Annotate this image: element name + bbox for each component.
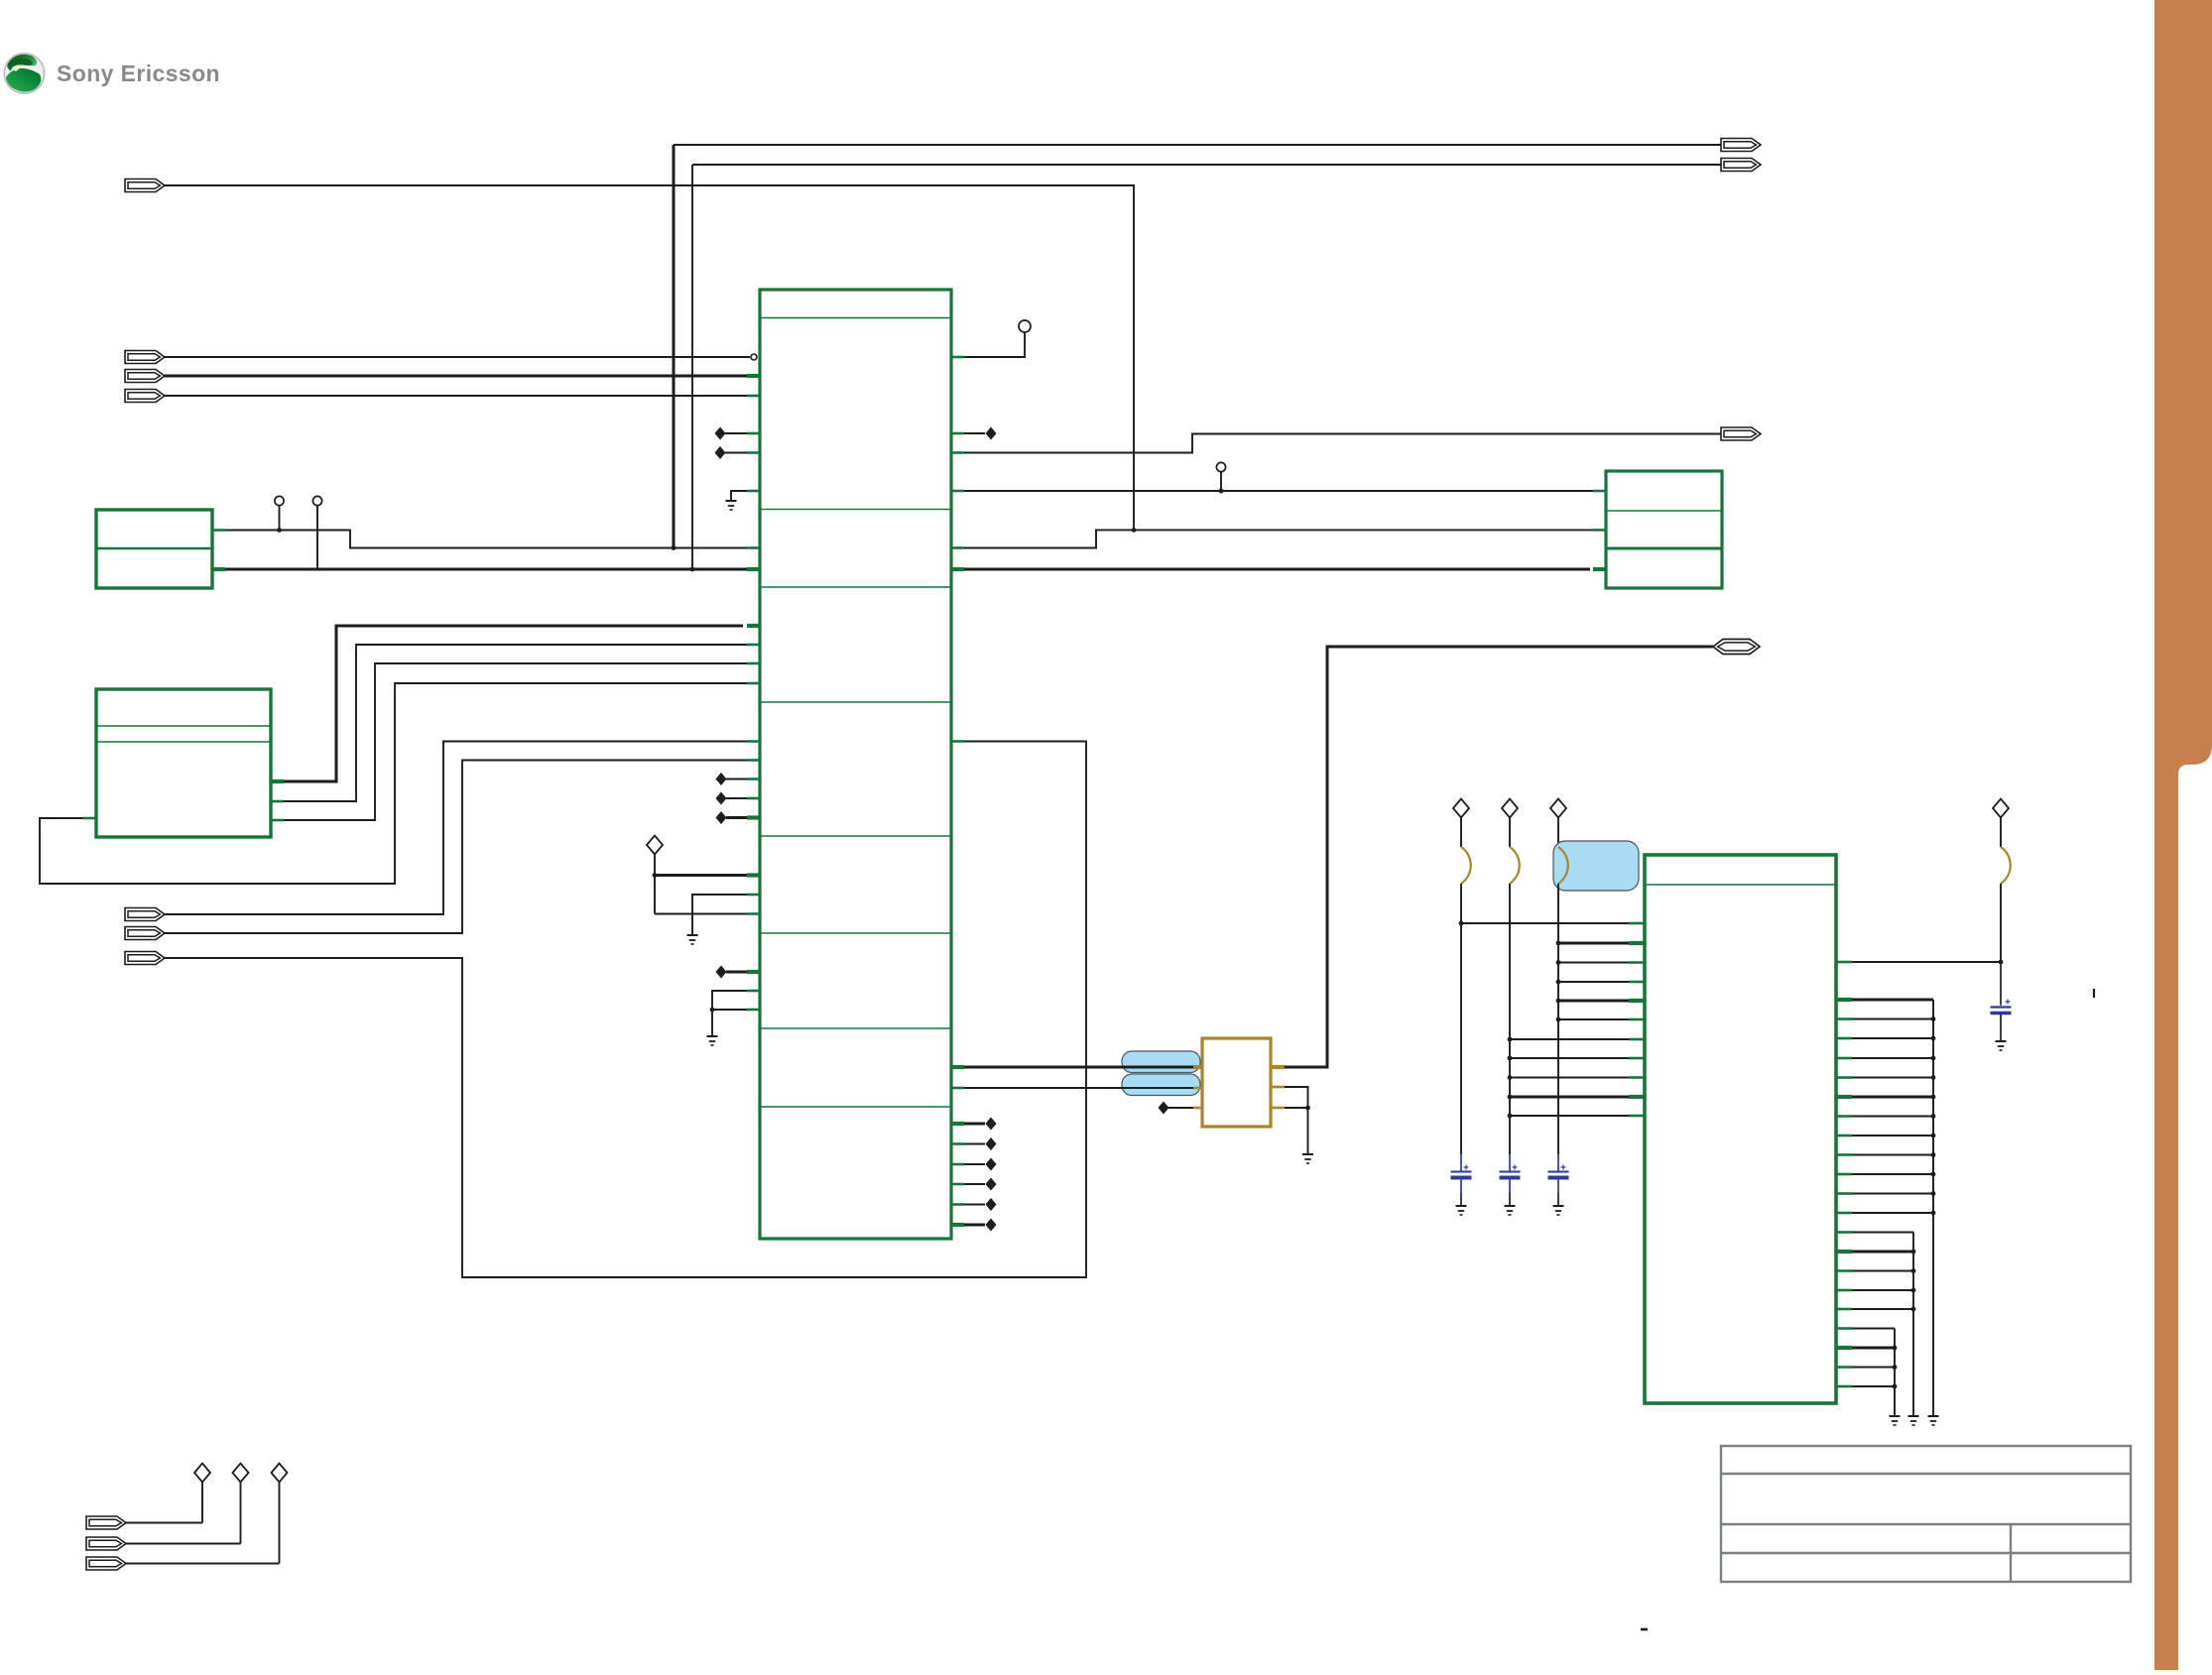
svg-text:Sony Ericsson: Sony Ericsson xyxy=(57,60,220,86)
